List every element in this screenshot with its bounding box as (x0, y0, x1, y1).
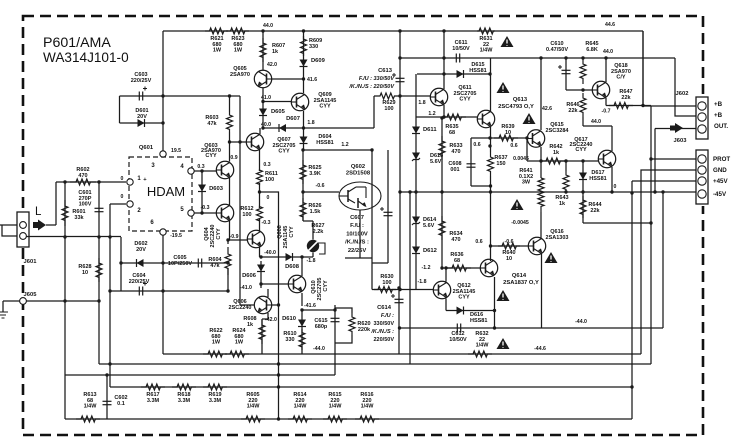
wire D606 col (260, 261, 262, 288)
wire 40.0 row (263, 127, 374, 129)
svg-text:41.6: 41.6 (307, 77, 317, 83)
wire 44.0 to +B2 (675, 58, 696, 116)
wire x110 vertical (109, 204, 111, 364)
wire D603 col (201, 171, 203, 213)
warning triangle q614 (497, 290, 510, 301)
wire J601 left hook (2, 225, 17, 236)
svg-text:-0.9: -0.9 (230, 234, 239, 240)
wire pin-b row y237 (26, 236, 121, 238)
connector J602 box (696, 97, 708, 139)
svg-text:+B: +B (714, 101, 723, 108)
wire R603 top (229, 96, 231, 112)
svg-text:D617HSS81: D617HSS81 (589, 170, 606, 182)
bus y364 (99, 363, 651, 365)
resistor R615 (323, 416, 347, 422)
svg-text:-0.0045: -0.0045 (511, 220, 529, 226)
wire R636 row (442, 267, 480, 269)
junction c614 bus (398, 326, 401, 329)
wire Q616 emitter (541, 254, 543, 328)
svg-text:J605: J605 (24, 292, 38, 298)
junction D603 bot (200, 211, 203, 214)
wire loop left (120, 237, 122, 291)
resistor R643 (563, 171, 569, 193)
junction Q611 coll (442, 72, 445, 75)
node pin4 (188, 168, 194, 174)
svg-text:R620220k: R620220k (357, 321, 371, 333)
wire R626 to pot (303, 220, 313, 222)
resistor R637 (488, 152, 494, 176)
junction 41.0 (261, 100, 264, 103)
svg-text:1.2: 1.2 (428, 111, 435, 117)
svg-text:44.6: 44.6 (605, 22, 615, 28)
junction R625 top (301, 148, 304, 151)
wire Q602 emitter (359, 210, 361, 258)
wire -45V riser (662, 192, 664, 328)
resistor R624 (225, 351, 249, 357)
junction Q610 em (300, 308, 303, 311)
diode D603 (198, 185, 206, 192)
wire R630 row (372, 289, 433, 291)
junction q615 em row (539, 159, 542, 162)
wire Q606 emitter (267, 313, 269, 319)
junction prot riser (649, 157, 652, 160)
node pin5 (188, 210, 194, 216)
wire x163 down (162, 263, 164, 354)
capacitor C601 (95, 208, 104, 211)
transistor Q610 (288, 275, 305, 292)
node 19.5 (160, 151, 166, 157)
wire D-ladder (415, 74, 417, 290)
transistor Q603 (216, 161, 233, 178)
svg-text:D611: D611 (423, 127, 437, 133)
svg-text:0.6: 0.6 (473, 142, 480, 148)
wire Q602 box bottom (345, 257, 372, 259)
junction R633 bot (440, 190, 443, 193)
junction c602 top (105, 373, 108, 376)
diode D607 (279, 124, 286, 132)
diode D608 (286, 253, 293, 261)
wire R641 down (540, 212, 542, 238)
transistor Q612 (433, 281, 450, 298)
svg-text:D60120V: D60120V (135, 108, 148, 120)
wire C607 bottom row (372, 262, 388, 264)
junction ladder mid (414, 190, 417, 193)
junction C601 top (97, 180, 100, 183)
wire 44.6 to +B (643, 31, 696, 106)
junction R629 (398, 94, 401, 97)
junction R633 top (440, 116, 443, 119)
J604 pin GND (698, 166, 706, 174)
wire x410 vertical (409, 192, 411, 364)
wire pin2 branch (110, 203, 126, 205)
svg-text:R6193.3M: R6193.3M (208, 392, 221, 404)
junction x65 y237 (63, 235, 66, 238)
svg-text:+B: +B (714, 112, 723, 119)
wire D605 col (262, 102, 264, 129)
svg-text:J603: J603 (674, 138, 688, 144)
wire Q609 emitter (303, 111, 305, 133)
wire bus x163 top (162, 31, 164, 151)
wire C608 col (470, 138, 472, 186)
resistor R642 (541, 158, 565, 164)
junction r643 top (564, 159, 567, 162)
junction x410 top (408, 190, 411, 193)
junction R604 291 (226, 289, 229, 292)
svg-text:R6261.5k: R6261.5k (308, 203, 321, 215)
wire Q605 to Q609 base (263, 101, 291, 103)
wire R620 loop bottom (335, 335, 352, 343)
wire Q617 emitter (611, 167, 613, 192)
svg-text:R6183.3M: R6183.3M (177, 392, 190, 404)
svg-text:D608: D608 (285, 264, 300, 270)
junction r604 top (226, 238, 229, 241)
svg-text:R6173.3M: R6173.3M (146, 392, 159, 404)
junction D603 top (200, 169, 203, 172)
wire R642 row (527, 160, 598, 162)
wire hdam6 col (162, 235, 164, 263)
wire pin5 to base (194, 212, 216, 214)
wire Q606 base (240, 304, 254, 306)
diode D610 (298, 320, 306, 327)
wire C602 col (106, 375, 108, 419)
diode D601 (138, 119, 145, 127)
capacitor C614 (395, 299, 404, 302)
resistor R639 (494, 135, 518, 141)
resistor R617 (141, 384, 165, 390)
svg-text:-44.6: -44.6 (534, 346, 546, 352)
wire C604 row right (163, 290, 228, 292)
wire J605 right (26, 300, 99, 302)
junction Q610 coll (300, 255, 303, 258)
wire PROT (651, 158, 696, 160)
junction x444 y58 (442, 56, 445, 59)
diode D616 (457, 307, 464, 315)
wire C603-D601 left (119, 96, 121, 123)
svg-text:R6456.8K: R6456.8K (585, 41, 598, 53)
transistor Q608 (247, 230, 264, 247)
resistor R623 (226, 28, 249, 34)
connector mask (698, 94, 707, 206)
junction 40.0 (261, 126, 264, 129)
wire Q606 em to R608 (262, 318, 268, 320)
wire R628 col (98, 237, 100, 364)
wire Q606 right stub (272, 304, 279, 306)
svg-text:D609: D609 (311, 58, 326, 64)
junction x400 r630 (398, 288, 401, 291)
junction q607 base tap (228, 140, 231, 143)
junction r645 top (581, 56, 584, 59)
wire R647 riser (642, 31, 644, 106)
resistor R619 (203, 384, 227, 390)
wire x66 col (64, 375, 66, 419)
ground symbol (0, 312, 8, 318)
transistor Q605 (254, 70, 271, 87)
resistor R611 (257, 170, 263, 184)
svg-text:0.3: 0.3 (263, 162, 270, 168)
svg-text:WA314J101-0: WA314J101-0 (43, 50, 129, 65)
wire OUT riser (654, 129, 656, 193)
junction Q605 base (302, 77, 305, 80)
svg-text:0.9: 0.9 (230, 155, 237, 161)
junction r636 left (440, 266, 443, 269)
capacitor C605 (198, 259, 201, 268)
wire R611 to R612 (259, 183, 261, 208)
wire R629 left drop (373, 96, 375, 128)
wire 0 riser x632 (631, 181, 633, 419)
wire pin4 to base (194, 170, 216, 172)
wire Q607 collector up (259, 128, 261, 134)
wire Q608 emitter (259, 247, 261, 257)
svg-text:D607: D607 (286, 116, 300, 122)
wire D601 row (120, 122, 164, 124)
junction x400 y191 (398, 190, 401, 193)
wire C601 col (98, 182, 100, 236)
wire Q618 collector (605, 98, 607, 106)
wire R637 down (490, 176, 492, 261)
svg-text:42.0: 42.0 (267, 62, 277, 68)
wire Q617 collector (611, 126, 613, 151)
svg-text:F./U : 330/50V: F./U : 330/50V (359, 76, 395, 82)
wire Q604 to Q608 (228, 239, 247, 241)
node pin6 (160, 229, 166, 235)
diode D612 (412, 247, 420, 254)
transistor Q613 (477, 110, 494, 127)
darlington Q602 (339, 182, 381, 210)
wire Q615 emitter (540, 147, 542, 178)
junction x279 y419 (277, 417, 280, 420)
ground stem (2, 301, 4, 312)
wire +45V (632, 180, 696, 182)
transistor Q618 (592, 81, 609, 98)
junction r643 bot (564, 190, 567, 193)
bus y419 (65, 418, 632, 420)
junction r644 riser (649, 221, 652, 224)
resistor R633 (439, 136, 445, 160)
capacitor C613 (396, 78, 405, 81)
junction c614 top (397, 286, 400, 289)
junction r603 feed (228, 94, 231, 97)
wire Q613 collector up (490, 58, 492, 111)
junction R635 (442, 115, 445, 118)
svg-text:1.8: 1.8 (418, 100, 425, 106)
junction x65 y301 (63, 299, 66, 302)
J604 pin -45V (698, 190, 706, 198)
svg-text:44.0: 44.0 (263, 23, 273, 29)
svg-text:D606: D606 (242, 273, 257, 279)
junction d617 top (581, 159, 584, 162)
wire R609 col (303, 31, 305, 93)
svg-text:0.3: 0.3 (197, 164, 204, 170)
svg-text:-42.0: -42.0 (265, 317, 277, 323)
svg-text:-40.0: -40.0 (264, 250, 276, 256)
junction x279 y387 (277, 385, 280, 388)
node pin1 (127, 179, 133, 185)
wire Q607 base (230, 141, 247, 143)
svg-text:J602: J602 (676, 91, 689, 97)
junction d616 right (493, 309, 496, 312)
connector J604 box (696, 150, 708, 204)
wire C607 col (387, 150, 389, 263)
svg-text:OUT.: OUT. (714, 123, 728, 130)
junction r640 tap (489, 244, 492, 247)
junction c604 row x110 (108, 289, 111, 292)
wire r604 top link (227, 240, 229, 244)
wire C605 row (163, 262, 228, 264)
J602 pin +B1 (698, 102, 706, 110)
svg-text:-44.0: -44.0 (313, 346, 325, 352)
capacitor C612 (457, 324, 460, 333)
svg-text:C61210/50V: C61210/50V (449, 331, 467, 343)
svg-text:CYY: CYY (323, 280, 329, 292)
wire pot top (312, 221, 314, 240)
arrow J601 (33, 220, 46, 231)
J602 pin OUT (698, 125, 706, 133)
resistor R618 (172, 384, 196, 390)
svg-text:D612: D612 (423, 248, 437, 254)
transistor Q606 (254, 296, 271, 313)
resistor R645 (580, 58, 586, 84)
wire L riser (55, 182, 57, 225)
junction x110 y237 (108, 235, 111, 238)
J604 pin PROT (698, 155, 706, 163)
resistor R614 (288, 416, 312, 422)
wire R644 col (582, 192, 584, 223)
wire R625 col (302, 150, 304, 221)
svg-text:P601/AMA: P601/AMA (43, 35, 111, 51)
resistor R631 (477, 28, 495, 34)
wire R647 row (606, 105, 651, 107)
wire R608 col (261, 319, 263, 354)
wire pot row (260, 256, 314, 258)
diode D613 (412, 153, 420, 160)
wire Q607 emitter down (259, 150, 261, 171)
wire Q603 collector (229, 132, 231, 162)
svg-text:220/50V: 220/50V (374, 337, 395, 343)
junction q612 coll (444, 266, 447, 269)
svg-text:PROT: PROT (713, 156, 730, 163)
wire Q610 em row (302, 309, 335, 311)
junction r644 top (581, 190, 584, 193)
svg-text:2SC4793 O,Y: 2SC4793 O,Y (498, 104, 534, 110)
junction Q610 base (259, 282, 262, 285)
diode D602 (137, 259, 144, 267)
svg-text:/K./N./S : 220/50V: /K./N./S : 220/50V (348, 84, 395, 90)
warning triangle r641 (511, 199, 524, 210)
wire R639 row (491, 137, 528, 139)
svg-text:C601270P100V: C601270P100V (78, 190, 91, 208)
diode D604 (300, 137, 308, 144)
wire J601 left stub (0, 224, 17, 226)
resistor R605 (241, 416, 265, 422)
wire Q610 collector (301, 257, 303, 276)
wire C610 col (565, 58, 567, 90)
junction q607 base x241 (238, 140, 241, 143)
warning triangle r632 (497, 338, 510, 349)
wire C615 col (334, 305, 336, 375)
svg-text:-45V: -45V (713, 191, 727, 198)
junction r645 bot (581, 88, 584, 91)
wire D617 col (582, 161, 584, 192)
J601 pin b (20, 233, 27, 240)
resistor R603 (227, 112, 233, 132)
resistor R612b (257, 207, 263, 221)
junction r637 out (489, 190, 492, 193)
resistor R620 (349, 313, 355, 335)
svg-text:-41.6: -41.6 (304, 303, 316, 309)
wire D602 row (121, 262, 163, 264)
resistor R640 (498, 243, 520, 249)
wire mid bus y192 (400, 191, 696, 193)
resistor R616 (355, 416, 379, 422)
junction q613 coll (488, 72, 491, 75)
wire Q611 emitter (443, 105, 445, 117)
wire arrow to riser (46, 224, 56, 226)
wire R644 to riser (583, 222, 651, 224)
junction base q602 (301, 190, 304, 193)
svg-text:0.0045: 0.0045 (513, 156, 529, 162)
wire C604 row (110, 290, 163, 292)
svg-text:-0.6: -0.6 (505, 239, 514, 245)
wire Q606 collector (267, 289, 269, 297)
resistor R635 (442, 114, 466, 120)
svg-text:D615HSS81: D615HSS81 (469, 62, 486, 74)
wire q615 base stub (526, 138, 528, 161)
svg-text:-41.0: -41.0 (240, 285, 252, 291)
junction R628 top (97, 235, 100, 238)
svg-text:Q614: Q614 (512, 273, 527, 279)
svg-text:D610: D610 (282, 316, 296, 322)
capacitor C615 (331, 318, 340, 321)
junction J605 (97, 299, 100, 302)
wire x400 long vertical (399, 31, 401, 290)
wire Q614 collector down (494, 277, 496, 328)
J601 pin a (20, 222, 27, 229)
wire Q602 box top (304, 149, 373, 151)
resistor R601 (62, 200, 68, 226)
svg-text:-0.3: -0.3 (262, 220, 271, 226)
svg-text:/K./N./S :: /K./N./S : (370, 329, 394, 335)
svg-text:0: 0 (121, 194, 124, 200)
junction R604 263 (226, 261, 229, 264)
potentiometer R627 (307, 240, 319, 252)
wire GND (641, 170, 696, 354)
connector J601 box (17, 212, 29, 247)
J604 pin +45V (698, 177, 706, 185)
svg-text:0: 0 (614, 184, 617, 190)
svg-text:-0.7: -0.7 (602, 109, 611, 115)
junction r647 riser (641, 104, 644, 107)
wire pot bottom (312, 253, 314, 258)
junction x444 top (442, 29, 445, 32)
junction q606 stub (277, 303, 280, 306)
svg-text:1.8: 1.8 (307, 120, 314, 126)
junction x279 y375 (277, 373, 280, 376)
wire R607 col (262, 31, 264, 70)
junction 0 (610, 190, 613, 193)
svg-text:-1.8: -1.8 (307, 258, 316, 264)
resistor R632 (468, 351, 492, 357)
wire R633 col (441, 117, 443, 268)
svg-text:1.2: 1.2 (341, 142, 348, 148)
wire Q613 emitter (490, 127, 492, 152)
wire Q610 base (261, 283, 288, 285)
wire C608 bot (471, 185, 491, 187)
wire Q602 base (304, 191, 339, 193)
junction q615 base (525, 136, 528, 139)
wire x110 to 387 (109, 364, 111, 387)
diode D611 (412, 127, 420, 134)
svg-text:44.0: 44.0 (603, 49, 613, 55)
